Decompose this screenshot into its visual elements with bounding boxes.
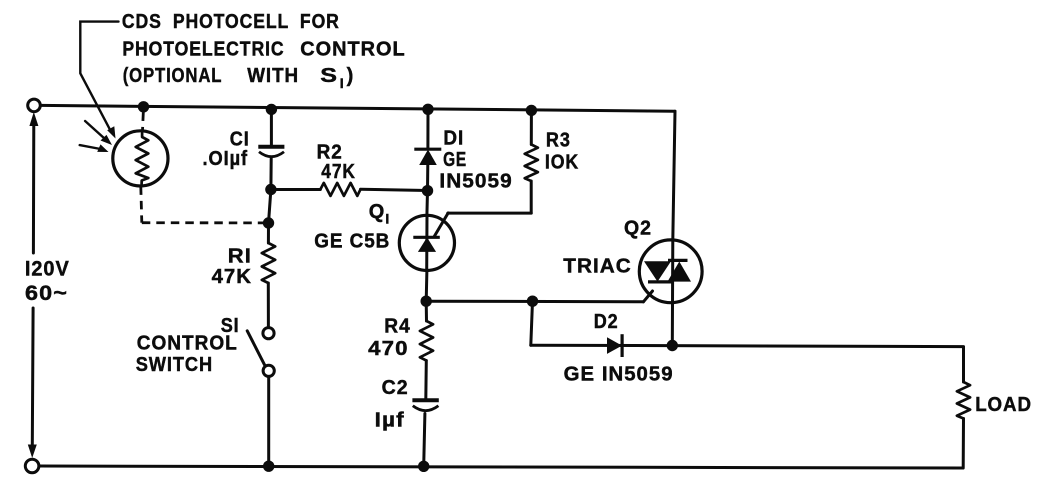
svg-text:R3: R3 <box>546 130 571 152</box>
svg-text:D2: D2 <box>594 311 619 333</box>
svg-text:470: 470 <box>368 338 409 360</box>
svg-text:I20V: I20V <box>25 258 70 281</box>
svg-text:GE C5B: GE C5B <box>314 231 390 253</box>
svg-text:47K: 47K <box>321 161 356 183</box>
svg-text:GE IN5059: GE IN5059 <box>564 364 674 386</box>
svg-text:CONTROL: CONTROL <box>137 333 238 355</box>
svg-text:S: S <box>320 65 338 87</box>
svg-text:GE: GE <box>443 149 467 171</box>
svg-text:I: I <box>340 75 345 91</box>
svg-text:LOAD: LOAD <box>975 394 1032 416</box>
svg-text:IN5059: IN5059 <box>439 171 512 193</box>
svg-text:CONTROL: CONTROL <box>300 39 406 61</box>
svg-text:DI: DI <box>443 128 464 150</box>
svg-text:60~: 60~ <box>25 282 68 305</box>
svg-text:47K: 47K <box>212 266 252 288</box>
svg-text:WITH: WITH <box>247 65 299 87</box>
svg-text:CDS PHOTOCELL FOR: CDS PHOTOCELL FOR <box>122 11 340 33</box>
svg-text:Q2: Q2 <box>624 218 652 240</box>
svg-text:SWITCH: SWITCH <box>136 354 213 376</box>
svg-text:PHOTOELECTRIC: PHOTOELECTRIC <box>122 39 284 61</box>
svg-text:R4: R4 <box>384 316 410 338</box>
svg-text:RI: RI <box>228 246 252 268</box>
svg-text:.OIµf: .OIµf <box>203 148 249 170</box>
svg-text:(OPTIONAL: (OPTIONAL <box>123 65 223 87</box>
svg-text:): ) <box>347 65 355 87</box>
svg-text:IOK: IOK <box>545 152 579 174</box>
svg-text:Iµf: Iµf <box>375 410 405 432</box>
svg-text:TRIAC: TRIAC <box>563 256 632 278</box>
svg-text:C2: C2 <box>382 377 409 399</box>
